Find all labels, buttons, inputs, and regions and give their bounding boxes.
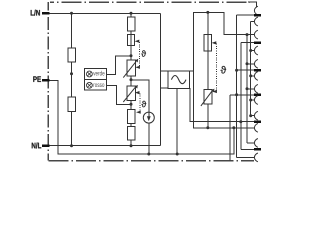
- thermal link T2 (varistor RV2 to resistor R2): [135, 91, 141, 114]
- terminal N/L: [42, 144, 49, 147]
- node N/L - left branch: [70, 144, 73, 147]
- feed blade 1: [237, 14, 255, 16]
- wire monitoring box centre to PE bus: [176, 88, 178, 154]
- bus blade group A x=236.6: [236, 15, 238, 157]
- bus finger group B x=250.7: [250, 22, 252, 116]
- feed finger 12: [237, 156, 255, 158]
- feed blade 2: [241, 42, 254, 44]
- varistor RV3 right chain: [201, 89, 215, 106]
- node finger bus A row 7: [246, 87, 249, 90]
- wire left branch x=71.5: [71, 13, 73, 145]
- feed finger 8: [251, 99, 255, 101]
- label L/N: [31, 10, 40, 16]
- thermal fuse F2 right chain: [204, 35, 212, 51]
- label N/L: [32, 143, 41, 149]
- plug finger contact 7: [254, 84, 258, 93]
- feed finger 9: [251, 115, 255, 117]
- resistor R upper-left: [68, 48, 76, 62]
- node finger bus B row 4: [249, 49, 252, 52]
- plug finger contact 4: [254, 46, 258, 55]
- indicator lamp box: [85, 68, 107, 90]
- node varistor bottom junction: [130, 103, 133, 106]
- feed finger 11: [247, 142, 254, 144]
- feed blade 6: [241, 148, 254, 150]
- node L/N - centre branch: [130, 12, 133, 15]
- plug blade contact 3: [254, 69, 261, 72]
- wire border corner to finger 1: [248, 2, 256, 7]
- node blade bus B line A: [239, 120, 242, 123]
- plug finger contact 1: [254, 6, 258, 15]
- terminal L/N: [42, 12, 49, 15]
- feed finger 4: [251, 50, 255, 52]
- wire L/N rail: [49, 12, 160, 14]
- plug blade contact 1: [254, 14, 261, 17]
- plug blade contact 5: [254, 120, 261, 123]
- lamp verde: [87, 71, 93, 77]
- enclosure border bottom: [48, 160, 254, 162]
- varistor RV1: [123, 59, 138, 78]
- node PE riser on line B: [232, 126, 235, 129]
- lamp rosso: [87, 82, 93, 88]
- feed finger 6: [251, 75, 255, 77]
- node blade bus A row 4: [235, 93, 238, 96]
- wire rosso lamp return: [107, 86, 131, 105]
- feed blade 3: [237, 69, 255, 71]
- enclosure border left: [47, 2, 49, 161]
- resistor R lower-left: [68, 97, 76, 112]
- node finger bus B row 9: [249, 114, 252, 117]
- thermal fuse F1 centre chain: [128, 34, 135, 45]
- node fuse-varistor junction: [130, 54, 133, 57]
- wire stub box top-left: [161, 70, 169, 72]
- wire arrester branch: [131, 80, 149, 154]
- resistor R2 centre chain: [127, 109, 135, 123]
- wire center branch x=131: [130, 13, 132, 145]
- surge arrester (circle with arrow): [143, 112, 154, 123]
- wire stub box bottom-left: [161, 87, 169, 89]
- wire L/N to monitoring box: [160, 13, 162, 145]
- wire monitoring box right to blade 5: [190, 88, 254, 122]
- wire PE rail to bottom bus: [49, 80, 234, 154]
- node finger bus B row 8: [249, 99, 252, 102]
- thermal link T3 (fuse F2 to varistor RV3): [212, 41, 217, 93]
- node PE bus - monitoring box: [176, 153, 179, 156]
- node L/N - left branch: [70, 12, 73, 15]
- plug blade contact 6: [254, 148, 261, 151]
- plug finger contact 8: [254, 96, 258, 105]
- plug blade contact 4: [254, 94, 261, 97]
- feed finger 2: [251, 21, 255, 23]
- enclosure border top: [50, 1, 250, 3]
- monitoring unit box with sine symbol: [168, 71, 189, 88]
- varistor RV2: [123, 85, 138, 102]
- wire blade-4 stub to enclosure bottom: [229, 95, 231, 161]
- wire protected-line net to contact row 3: [189, 12, 254, 71]
- bus blade group B x=240.8: [240, 43, 242, 150]
- thermal link T1 (fuse F1 to varistor RV1): [135, 40, 140, 69]
- node right chain top: [206, 11, 209, 14]
- plug finger contact 10: [254, 123, 258, 132]
- label rosso: [94, 83, 105, 87]
- node blade bus A row 3: [235, 69, 238, 72]
- plug finger contact 11: [254, 139, 258, 148]
- node varistor mid junction: [130, 78, 133, 81]
- wire protected net down to contact row 10: [193, 71, 254, 128]
- label PE: [33, 76, 41, 82]
- node line B - right chain: [206, 126, 209, 129]
- plug finger contact 9: [254, 111, 258, 120]
- terminal PE: [42, 79, 49, 82]
- node N/L - centre branch: [130, 144, 133, 147]
- wire verde lamp return: [107, 56, 131, 75]
- feed finger 7: [247, 88, 254, 90]
- resistor R1 top of centre chain: [127, 17, 135, 31]
- node finger bus B row 6: [249, 74, 252, 77]
- node PE bus - arrester: [147, 153, 150, 156]
- plug finger contact 6: [254, 72, 258, 81]
- node finger bus A row 3: [246, 33, 249, 36]
- wire N/L rail: [49, 145, 160, 147]
- node finger bus A row 5: [246, 62, 249, 65]
- plug finger contact 5: [254, 59, 258, 68]
- plug finger contact 3: [254, 30, 258, 39]
- feed blade 4: [230, 94, 254, 96]
- plug blade contact 2: [254, 41, 261, 44]
- plug finger contact 2: [254, 17, 258, 26]
- plug finger contact 12: [254, 153, 258, 162]
- wire right branch x=207.8: [207, 12, 209, 127]
- label theta 3: [221, 66, 226, 74]
- label theta 2: [142, 101, 147, 107]
- bus finger group A x=247: [246, 35, 248, 143]
- label verde: [93, 71, 104, 76]
- resistor R3 centre chain: [127, 126, 135, 140]
- node lamp supply junction: [70, 72, 73, 75]
- label theta 1: [141, 50, 146, 56]
- feed finger 5: [247, 63, 254, 65]
